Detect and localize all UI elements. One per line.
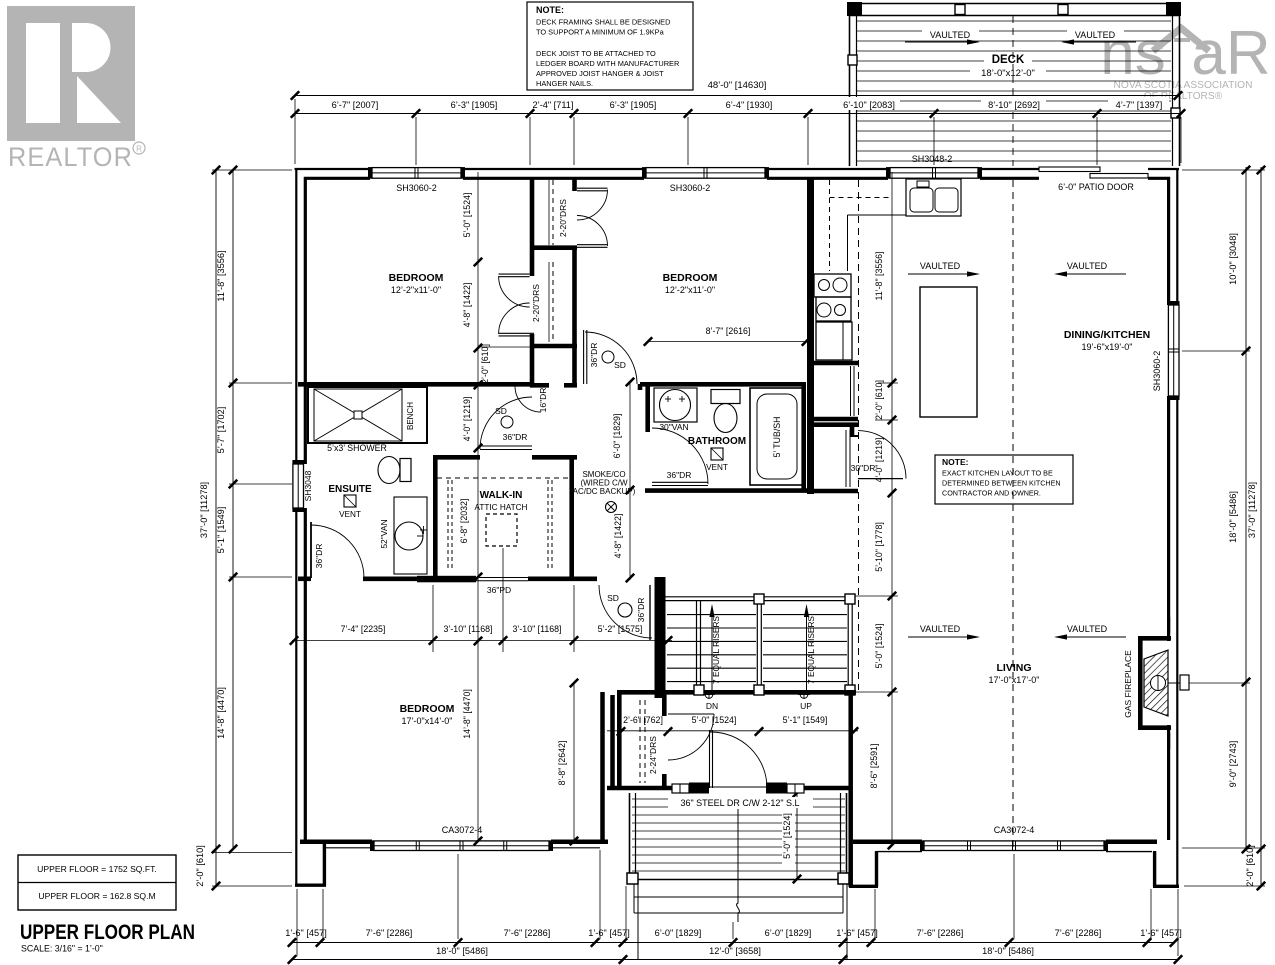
- svg-text:NOTE:: NOTE:: [536, 5, 564, 15]
- svg-text:5’-1" [1549]: 5’-1" [1549]: [216, 507, 226, 554]
- wall walkin north: [433, 455, 577, 460]
- svg-text:4’-7" [1397]: 4’-7" [1397]: [1116, 100, 1163, 110]
- wall kitchen west: [807, 177, 814, 494]
- window SH3060-2 bedroom2: [642, 167, 769, 179]
- pantry door 30DR: [858, 431, 906, 479]
- svg-text:SD: SD: [607, 593, 619, 603]
- svg-text:2’-4" [711]: 2’-4" [711]: [533, 100, 574, 110]
- bedroom2 door: [584, 330, 637, 384]
- svg-text:1’-6" [457]: 1’-6" [457]: [1140, 928, 1182, 938]
- svg-text:VAULTED: VAULTED: [1067, 624, 1108, 634]
- dim labels bottom row2: [436, 946, 1034, 956]
- svg-text:ENSUITE: ENSUITE: [328, 484, 372, 495]
- bedroom1 label: [389, 272, 444, 295]
- svg-text:6’-3" [1905]: 6’-3" [1905]: [451, 100, 498, 110]
- svg-text:NOTE:: NOTE:: [942, 457, 969, 467]
- entry steel door leaf and arc: [710, 730, 768, 788]
- lower deck post left: [627, 873, 638, 884]
- dim ext x892: [855, 383, 898, 692]
- svg-text:BEDROOM: BEDROOM: [400, 703, 455, 715]
- svg-text:18’-0"x12’-0": 18’-0"x12’-0": [981, 68, 1035, 79]
- ensuite label: [328, 484, 372, 495]
- svg-text:DECK JOIST TO BE ATTACHED TO: DECK JOIST TO BE ATTACHED TO: [536, 49, 656, 58]
- dim label 37ft right: [1247, 482, 1257, 538]
- svg-text:6’-7" [2007]: 6’-7" [2007]: [332, 100, 379, 110]
- svg-text:SCALE: 3/16" = 1’-0": SCALE: 3/16" = 1’-0": [21, 944, 103, 954]
- wall top exterior outer: [295, 168, 1180, 170]
- wall living south: [849, 842, 922, 887]
- svg-text:NOVA SCOTIA ASSOCIATION: NOVA SCOTIA ASSOCIATION: [1114, 80, 1253, 91]
- svg-text:5’x3’ SHOWER: 5’x3’ SHOWER: [327, 443, 387, 453]
- wall right exterior inner: [1167, 177, 1170, 840]
- svg-text:VENT: VENT: [706, 463, 728, 472]
- dim ext y641: [433, 548, 574, 652]
- svg-text:7 EQUAL RISERS: 7 EQUAL RISERS: [806, 616, 816, 684]
- svg-text:BENCH: BENCH: [406, 402, 415, 430]
- window SH3048-2 kitchen: [886, 167, 982, 179]
- svg-text:VAULTED: VAULTED: [930, 30, 971, 40]
- stair east edge: [845, 594, 855, 695]
- svg-text:6’-8" [2032]: 6’-8" [2032]: [459, 499, 469, 544]
- stair rail left: [694, 601, 704, 695]
- deck frame: [849, 4, 1180, 167]
- svg-text:SD: SD: [495, 406, 507, 416]
- stair treads right flight: [763, 615, 847, 682]
- svg-text:DINING/KITCHEN: DINING/KITCHEN: [1064, 329, 1150, 341]
- walkin shelf right: [548, 480, 552, 570]
- dim line interior x574: [570, 679, 578, 845]
- svg-text:HANGER NAILS.: HANGER NAILS.: [536, 79, 593, 88]
- bathroom vanity label: [659, 422, 688, 432]
- stair dn arrow: [709, 604, 721, 690]
- window SH3060-2 dining: [1168, 301, 1180, 400]
- svg-text:SH3048: SH3048: [303, 470, 313, 501]
- svg-text:37’-0" [11278]: 37’-0" [11278]: [199, 482, 209, 538]
- pocket door label: [487, 585, 511, 595]
- dim label 8-8: [557, 741, 567, 786]
- svg-text:5’-1" [1549]: 5’-1" [1549]: [783, 715, 828, 725]
- dim labels left inner: [216, 250, 226, 738]
- svg-text:1’-6" [457]: 1’-6" [457]: [836, 928, 878, 938]
- svg-text:3’-10" [1168]: 3’-10" [1168]: [513, 624, 562, 634]
- dim line bottom row1: [288, 938, 1178, 946]
- svg-text:2-20"DRS: 2-20"DRS: [558, 199, 568, 237]
- lower deck post right: [838, 873, 849, 884]
- dim extension lines left: [212, 170, 292, 886]
- svg-text:14’-8" [4470]: 14’-8" [4470]: [462, 689, 472, 739]
- wall bedroom2 west lower: [638, 384, 643, 390]
- svg-text:8’-10" [2692]: 8’-10" [2692]: [988, 100, 1040, 110]
- svg-text:5’-10" [1778]: 5’-10" [1778]: [874, 522, 884, 572]
- svg-text:7’-6" [2286]: 7’-6" [2286]: [1055, 928, 1102, 938]
- lower deck break line: [737, 809, 740, 922]
- kitchen sink: [906, 179, 961, 216]
- svg-text:18’-0" [5486]: 18’-0" [5486]: [1228, 491, 1238, 543]
- wall bedroom3 south east seg: [551, 842, 608, 848]
- svg-text:aR: aR: [1191, 19, 1270, 88]
- bathroom vanity: [654, 388, 697, 422]
- svg-text:BATHROOM: BATHROOM: [688, 436, 746, 447]
- window CA3072-4 living: [920, 840, 1108, 851]
- living vaulted right: [1054, 624, 1126, 640]
- svg-text:7’-6" [2286]: 7’-6" [2286]: [504, 928, 551, 938]
- dim line interior x892: [888, 172, 896, 849]
- svg-text:8’-6" [2591]: 8’-6" [2591]: [869, 744, 879, 789]
- walkin closet rod dashed: [437, 477, 570, 479]
- center dashed line: [1012, 180, 1014, 848]
- window SH3060-2 dining label: [1152, 351, 1162, 392]
- entry sidelight left: [672, 784, 689, 793]
- fireplace vent knob: [1168, 675, 1189, 690]
- entry door jamb right: [766, 783, 787, 794]
- dim extension lines bottom: [297, 850, 1178, 956]
- svg-text:4’-0" [1219]: 4’-0" [1219]: [462, 397, 472, 442]
- closet 2-20DRS top label: [558, 199, 568, 237]
- svg-text:2’-0" [610]: 2’-0" [610]: [195, 845, 205, 887]
- svg-text:6’-0" [1829]: 6’-0" [1829]: [655, 928, 702, 938]
- dim line bottom row2: [288, 955, 1182, 963]
- dim line hall y641: [290, 636, 672, 644]
- svg-text:EXACT KITCHEN LAYOUT TO BE: EXACT KITCHEN LAYOUT TO BE: [942, 469, 1053, 478]
- svg-text:4’-8" [1422]: 4’-8" [1422]: [613, 514, 623, 559]
- wall closets mid: [810, 419, 858, 425]
- shower stall: [308, 387, 427, 443]
- bedroom2 door label: [589, 343, 626, 370]
- svg-text:DETERMINED BETWEEN KITCHEN: DETERMINED BETWEEN KITCHEN: [942, 479, 1061, 488]
- wall pantry notch: [850, 425, 858, 437]
- svg-text:APPROVED JOIST HANGER & JOIST: APPROVED JOIST HANGER & JOIST: [536, 69, 664, 78]
- entry sidelight right: [787, 784, 804, 793]
- kitchen ceiling dashed: [858, 180, 860, 690]
- dim labels right inner: [1228, 233, 1238, 787]
- svg-text:9’-0" [2743]: 9’-0" [2743]: [1228, 741, 1238, 788]
- window SH3060-2 label bedroom2: [670, 183, 711, 193]
- svg-text:GAS FIREPLACE: GAS FIREPLACE: [1123, 650, 1133, 718]
- svg-text:4’-0" [1219]: 4’-0" [1219]: [874, 438, 884, 483]
- svg-text:11’-8" [3556]: 11’-8" [3556]: [216, 250, 226, 301]
- wall bottom-right step: [1153, 851, 1179, 886]
- svg-text:LIVING: LIVING: [996, 662, 1031, 674]
- window SH3048 ensuite: [292, 460, 304, 512]
- svg-text:CONTRACTOR AND OWNER.: CONTRACTOR AND OWNER.: [942, 489, 1041, 498]
- svg-text:36"PD: 36"PD: [487, 585, 511, 595]
- svg-text:5’-0" [1524]: 5’-0" [1524]: [692, 715, 737, 725]
- dim line interior x478: [474, 172, 482, 845]
- wall shower north: [298, 383, 430, 385]
- dim labels bottom row1: [285, 928, 1182, 938]
- dim labels x892: [869, 252, 884, 789]
- svg-text:30"VAN: 30"VAN: [659, 422, 688, 432]
- svg-text:8’-7" [2616]: 8’-7" [2616]: [706, 326, 751, 336]
- dim line right outer: [1257, 166, 1265, 890]
- dim line top row2: [291, 109, 1185, 117]
- deck vaulted left: [905, 28, 980, 45]
- fireplace label: [1123, 650, 1133, 718]
- note box deck framing: [527, 2, 693, 90]
- wall entry closet: [619, 692, 664, 790]
- svg-text:ATTIC HATCH: ATTIC HATCH: [475, 503, 528, 512]
- wall entry west: [603, 692, 613, 844]
- ensuite vanity label: [379, 519, 389, 548]
- window CA3072-4 bedroom3 label: [442, 825, 483, 835]
- ensuite door 36DR: [311, 522, 364, 578]
- entry closet label: [648, 736, 658, 774]
- walkin label: [480, 490, 523, 501]
- svg-text:7 EQUAL RISERS: 7 EQUAL RISERS: [711, 616, 721, 684]
- wall stair west: [655, 577, 666, 698]
- steel door label: [668, 797, 813, 808]
- kitchen vaulted left: [908, 261, 980, 277]
- scale note: [21, 944, 103, 954]
- patio door label: [1058, 182, 1134, 192]
- smoke co text: [573, 470, 636, 496]
- svg-text:SH3060-2: SH3060-2: [396, 183, 437, 193]
- svg-text:5’-7" [1702]: 5’-7" [1702]: [216, 407, 226, 454]
- svg-text:6’-4" [1930]: 6’-4" [1930]: [726, 100, 773, 110]
- svg-text:UPPER FLOOR = 162.8 SQ.M: UPPER FLOOR = 162.8 SQ.M: [38, 891, 155, 901]
- svg-text:2-24"DRS: 2-24"DRS: [648, 736, 658, 774]
- stair up arrow: [804, 604, 816, 690]
- fireplace walls: [1138, 617, 1171, 749]
- svg-text:8’-8" [2642]: 8’-8" [2642]: [557, 741, 567, 786]
- wall pantry south: [810, 489, 858, 494]
- wall bottom-left step: [295, 843, 326, 886]
- svg-text:VAULTED: VAULTED: [1067, 261, 1108, 271]
- dim line left inner: [229, 166, 237, 853]
- dim extension lines right: [1182, 170, 1265, 886]
- entry threshold: [709, 786, 766, 788]
- svg-text:7’-4" [2235]: 7’-4" [2235]: [341, 624, 386, 634]
- svg-text:6’-0" [1829]: 6’-0" [1829]: [765, 928, 812, 938]
- area table: [18, 855, 176, 910]
- dim extension lines top: [295, 99, 1181, 165]
- svg-text:VAULTED: VAULTED: [1075, 30, 1116, 40]
- REALTOR logo block-R: [7, 6, 135, 141]
- fireplace firebox: [1144, 650, 1168, 716]
- bedroom3 label: [400, 703, 455, 726]
- closet doors 2-20DRS top arcs: [577, 188, 608, 247]
- entry door jamb left: [689, 783, 709, 794]
- svg-text:SH3048-2: SH3048-2: [912, 154, 953, 164]
- svg-text:CA3072-4: CA3072-4: [442, 825, 483, 835]
- bedroom2 label: [663, 272, 718, 295]
- svg-text:R: R: [136, 145, 142, 154]
- dim line left outer: [212, 166, 220, 890]
- wall bathroom south: [645, 488, 812, 493]
- dim labels y641: [341, 624, 643, 634]
- svg-text:TO SUPPORT A MINIMUM OF 1.9KPa: TO SUPPORT A MINIMUM OF 1.9KPa: [536, 28, 665, 37]
- deck rail post top2: [1058, 5, 1068, 15]
- wall bedroom2 west: [575, 177, 577, 252]
- wall bedroom2 south: [640, 382, 806, 387]
- lower deck stair edge: [634, 884, 847, 960]
- closet bifold dashed top: [549, 180, 553, 245]
- wall bathroom north is bedroom2 south: [0, 0, 1, 1]
- entry closet dashed doors: [640, 700, 645, 783]
- svg-text:6’-0" [1829]: 6’-0" [1829]: [612, 414, 622, 459]
- stair dn symbol: [703, 690, 718, 711]
- bathroom door label: [667, 470, 692, 480]
- closet doors 2-20DRS mid arcs: [499, 274, 535, 336]
- svg-text:WALK-IN: WALK-IN: [480, 490, 523, 501]
- dim labels x478: [462, 193, 490, 739]
- deck corner post right: [1166, 2, 1181, 16]
- wall bedroom1 south: [298, 382, 530, 387]
- window SH3060-2 label bedroom1: [396, 183, 437, 193]
- deck vaulted right: [1061, 28, 1136, 45]
- entry closet door arc: [668, 714, 714, 760]
- svg-text:36"DR: 36"DR: [589, 343, 599, 368]
- svg-text:5’-0" [1524]: 5’-0" [1524]: [874, 624, 884, 669]
- walkin dim: [459, 499, 469, 544]
- hall door label: [636, 598, 646, 623]
- svg-text:6’-10" [2083]: 6’-10" [2083]: [843, 100, 895, 110]
- svg-text:2-20"DRS: 2-20"DRS: [531, 284, 541, 322]
- svg-text:4’-8" [1422]: 4’-8" [1422]: [462, 283, 472, 328]
- deck rail post top1: [955, 5, 965, 15]
- window CA3072-4 living label: [994, 825, 1035, 835]
- svg-text:SH3060-2: SH3060-2: [1152, 351, 1162, 392]
- walkin door label: [495, 406, 527, 442]
- dim line right inner: [1242, 166, 1250, 853]
- wall left exterior inner: [304, 177, 307, 840]
- window CA3072-4 bedroom3: [370, 840, 553, 851]
- svg-text:7’-6" [2286]: 7’-6" [2286]: [366, 928, 413, 938]
- dim label 2ft right: [1245, 845, 1255, 887]
- dim label 2ft left: [195, 845, 205, 887]
- shower bench label: [406, 402, 415, 430]
- svg-text:37’-0" [11278]: 37’-0" [11278]: [1247, 482, 1257, 538]
- lower deck hatch boards: [632, 799, 845, 871]
- svg-text:30"DR: 30"DR: [851, 463, 876, 473]
- dim label 37ft left: [199, 482, 209, 538]
- wall bedroom3 south: [300, 842, 372, 848]
- kitchen fridge: [816, 322, 852, 360]
- stair top edge: [664, 597, 854, 601]
- dim 8-7 bedroom2: [644, 326, 810, 346]
- svg-text:5’ TUB/SH: 5’ TUB/SH: [772, 416, 782, 457]
- stair up symbol: [798, 690, 812, 711]
- kitchen vaulted right: [1054, 261, 1126, 277]
- svg-text:10’-0" [3048]: 10’-0" [3048]: [1228, 233, 1238, 285]
- ensuite toilet: [378, 457, 411, 484]
- walkin door: [480, 397, 532, 450]
- kitchen counter solid: [848, 215, 907, 271]
- wall top exterior inner: [304, 177, 1170, 180]
- svg-text:18’-0" [5486]: 18’-0" [5486]: [982, 946, 1034, 956]
- closet shelf lines: [846, 366, 854, 487]
- svg-text:VENT: VENT: [339, 510, 361, 519]
- svg-text:14’-8" [4470]: 14’-8" [4470]: [216, 687, 226, 739]
- hall sd: [607, 593, 632, 617]
- stair center stringer: [754, 594, 764, 695]
- window SH3048 label: [303, 470, 313, 501]
- NSAR logo subtext: [1114, 80, 1253, 102]
- svg-text:UPPER FLOOR = 1752 SQ.FT.: UPPER FLOOR = 1752 SQ.FT.: [37, 864, 157, 874]
- wall living west: [848, 692, 853, 887]
- ensuite vent: [339, 495, 361, 519]
- svg-text:52"VAN: 52"VAN: [379, 519, 389, 548]
- note box kitchen: [935, 455, 1073, 504]
- svg-text:2’-0" [610]: 2’-0" [610]: [480, 344, 490, 384]
- dim line entry y731: [607, 727, 858, 735]
- svg-text:1’-6" [457]: 1’-6" [457]: [588, 928, 630, 938]
- REALTOR logo text: [8, 142, 145, 172]
- wall entry south: [607, 786, 849, 791]
- deck label: [970, 52, 1046, 79]
- svg-text:SD: SD: [614, 360, 626, 370]
- svg-text:5’-2" [1575]: 5’-2" [1575]: [598, 624, 643, 634]
- svg-text:DECK FRAMING SHALL BE DESIGNED: DECK FRAMING SHALL BE DESIGNED: [536, 18, 670, 27]
- svg-text:36"DR: 36"DR: [314, 544, 324, 569]
- deck rail post left: [848, 55, 857, 65]
- deck rail post right: [1171, 108, 1180, 118]
- svg-text:19’-6"x19’-0": 19’-6"x19’-0": [1082, 342, 1133, 352]
- wall living south east seg: [1106, 842, 1157, 852]
- bathroom label: [688, 436, 746, 447]
- svg-text:UP: UP: [800, 701, 812, 711]
- living label: [989, 662, 1040, 685]
- dim line interior x630 bath: [626, 378, 634, 582]
- deck hatch boards: [856, 21, 1171, 161]
- svg-text:VAULTED: VAULTED: [920, 261, 961, 271]
- svg-text:36"DR: 36"DR: [503, 432, 528, 442]
- dim line 48ft: [291, 80, 1182, 100]
- svg-text:12’-0" [3658]: 12’-0" [3658]: [709, 946, 761, 956]
- closet 2-20DRS mid label: [531, 284, 541, 322]
- dining kitchen label: [1064, 329, 1150, 352]
- svg-text:36"DR: 36"DR: [636, 598, 646, 623]
- kitchen island: [920, 287, 977, 417]
- lower deck frame: [630, 793, 847, 884]
- kitchen stove: [814, 274, 851, 321]
- wall hall below stairs: [617, 690, 856, 695]
- svg-text:17’-0"x14’-0": 17’-0"x14’-0": [402, 716, 453, 726]
- shower label: [327, 443, 387, 453]
- svg-text:18’-0" [5486]: 18’-0" [5486]: [436, 946, 488, 956]
- NSAR logo nsar text: [1100, 19, 1270, 88]
- svg-text:REALTOR: REALTOR: [8, 142, 133, 172]
- bathroom door: [652, 428, 708, 486]
- svg-text:2’-0" [610]: 2’-0" [610]: [1245, 845, 1255, 887]
- pocket door 36PD: [417, 576, 528, 583]
- wall ensuite east / walkin west: [433, 455, 438, 581]
- svg-text:2’-6" [762]: 2’-6" [762]: [623, 715, 663, 725]
- svg-text:6’-3" [1905]: 6’-3" [1905]: [610, 100, 657, 110]
- svg-text:5’-0" [1524]: 5’-0" [1524]: [782, 813, 792, 859]
- svg-text:12’-2"x11’-0": 12’-2"x11’-0": [391, 285, 441, 295]
- svg-text:7’-6" [2286]: 7’-6" [2286]: [917, 928, 964, 938]
- svg-text:SH3060-2: SH3060-2: [670, 183, 711, 193]
- wall bedroom1 east closet strip: [530, 177, 577, 387]
- svg-text:12’-2"x11’-0": 12’-2"x11’-0": [665, 285, 715, 295]
- ensuite vanity: [394, 497, 427, 574]
- smoke co symbol: [606, 502, 617, 513]
- wall walkin east: [569, 455, 574, 581]
- closet 16DR door: [515, 386, 548, 412]
- wall hall south: [298, 576, 597, 581]
- svg-text:VAULTED: VAULTED: [920, 624, 961, 634]
- walkin shelf left: [448, 480, 452, 570]
- wall left exterior outer: [295, 168, 297, 885]
- bathroom toilet: [711, 390, 740, 433]
- wall closet top kitchen: [810, 361, 858, 366]
- bathroom tub: [750, 388, 803, 485]
- closet bifold dashed mid: [549, 262, 553, 342]
- svg-text:5’-0" [1524]: 5’-0" [1524]: [462, 193, 472, 238]
- dim ext 2-0 bedroom1: [478, 346, 530, 348]
- title: [20, 920, 195, 944]
